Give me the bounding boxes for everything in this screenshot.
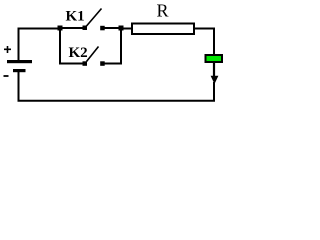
wire from lamp bottom to current arrow: [213, 63, 215, 77]
switch K2 pivot contact square: [83, 61, 88, 66]
wire from switch K1 right contact to node B: [103, 27, 121, 29]
wire from resistor R right lead to lamp top: [194, 29, 214, 56]
wire from battery negative terminal down to bottom rail: [18, 72, 20, 101]
switch K2 right contact square: [100, 61, 105, 66]
wire from node A down to switch K2 level: [60, 29, 84, 64]
wire from battery positive terminal up and right to node A: [19, 29, 61, 62]
battery B1 negative plate: [13, 69, 26, 72]
wire from node B to resistor R left lead: [121, 28, 132, 30]
current direction arrow head: [211, 76, 219, 84]
svg-text:R: R: [157, 1, 169, 21]
battery B1 positive plate: [7, 60, 32, 63]
switch K1 blade (open): [87, 9, 102, 27]
battery plus label: [4, 46, 11, 53]
battery minus label: [4, 75, 9, 77]
wire from node A to switch K1 pivot: [60, 27, 84, 29]
resistor R body: [132, 24, 194, 35]
svg-text:K1: K1: [66, 9, 85, 25]
switch K2 blade (open): [87, 47, 99, 62]
node B junction square: [119, 26, 124, 31]
node A junction square: [58, 26, 63, 31]
switch K1 pivot contact square: [83, 26, 88, 31]
wire from current arrow down to bottom rail: [213, 82, 215, 101]
lamp L1 (green indicator) body: [206, 55, 223, 62]
svg-text:K2: K2: [69, 45, 88, 61]
wire from switch K2 right contact up to node B: [103, 29, 121, 64]
bottom rail wire: [18, 100, 216, 102]
switch K1 right contact square: [100, 26, 105, 31]
